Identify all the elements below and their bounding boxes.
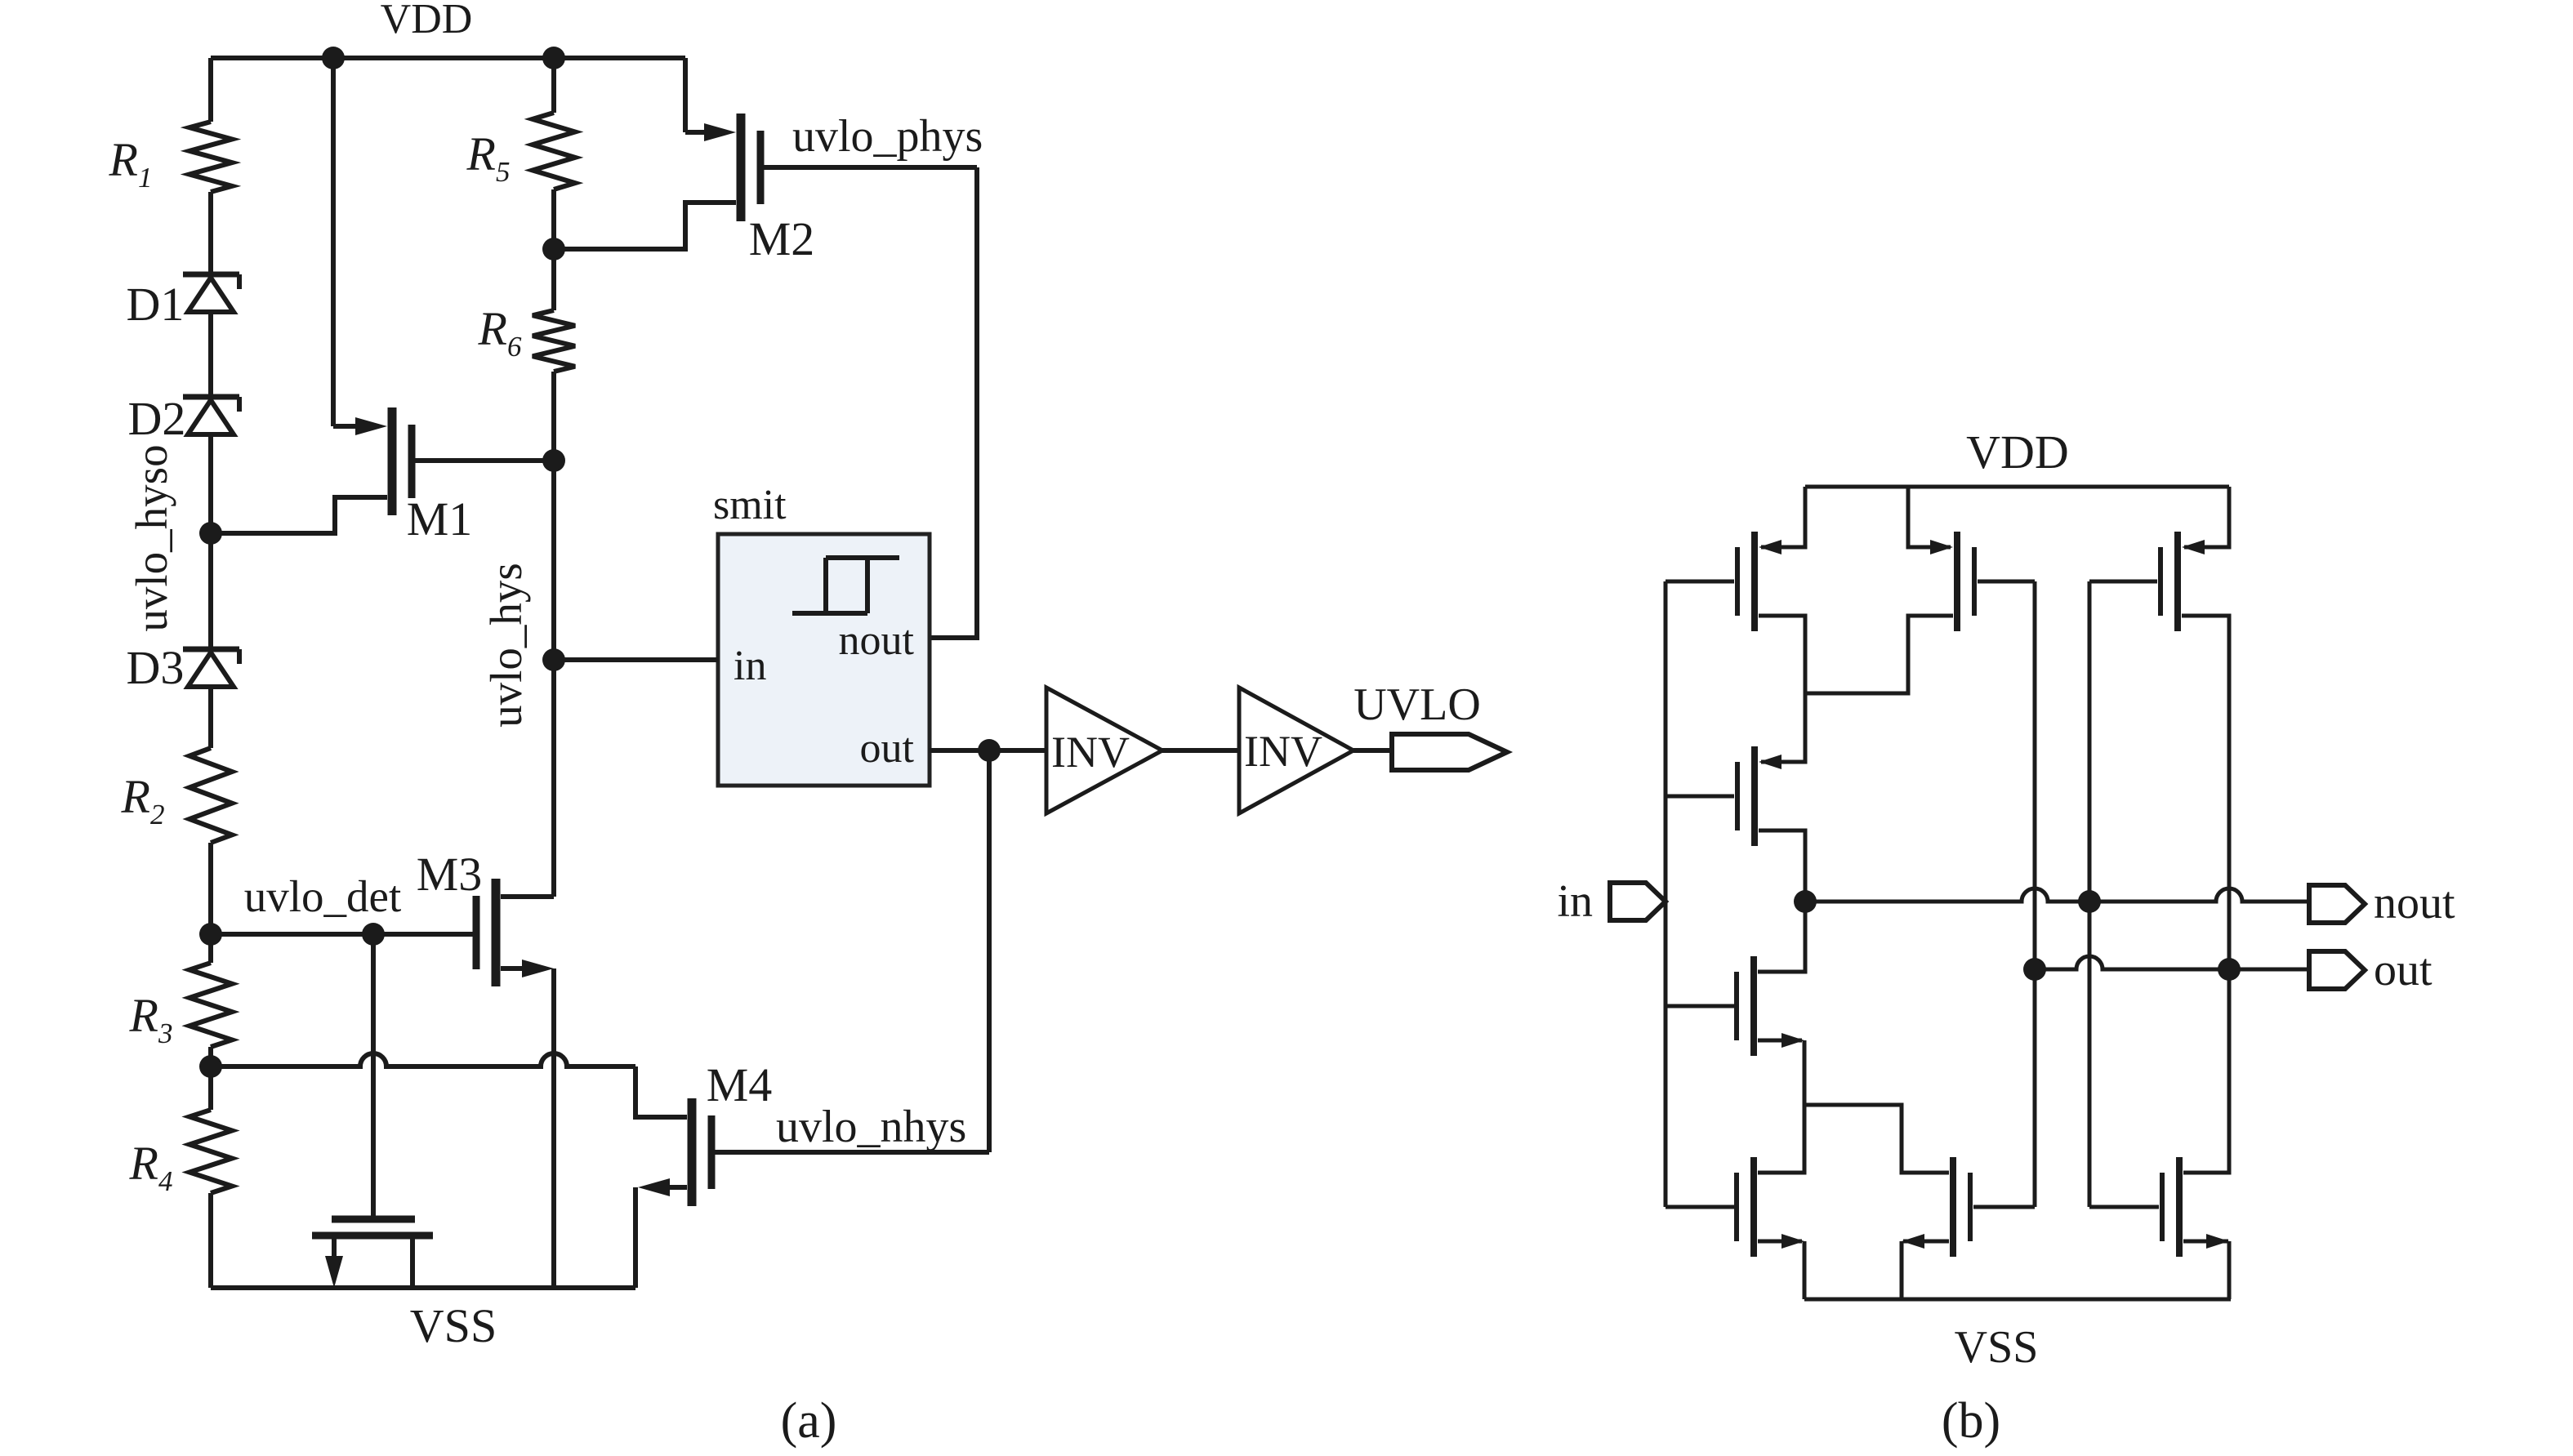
svg-text:M4: M4 xyxy=(707,1058,773,1111)
svg-text:out: out xyxy=(860,725,915,772)
svg-text:uvlo_phys: uvlo_phys xyxy=(792,111,983,162)
svg-text:(b): (b) xyxy=(1942,1393,2000,1449)
svg-text:VSS: VSS xyxy=(410,1299,497,1352)
svg-text:M2: M2 xyxy=(749,212,815,265)
svg-text:uvlo_det: uvlo_det xyxy=(244,871,401,921)
svg-text:VSS: VSS xyxy=(1955,1322,2039,1373)
svg-text:INV: INV xyxy=(1051,728,1130,777)
svg-text:UVLO: UVLO xyxy=(1353,679,1481,730)
svg-text:in: in xyxy=(734,643,766,689)
svg-text:out: out xyxy=(2374,945,2433,995)
svg-text:in: in xyxy=(1557,876,1593,927)
svg-text:M1: M1 xyxy=(407,492,473,545)
svg-text:nout: nout xyxy=(839,617,915,664)
svg-text:VDD: VDD xyxy=(1966,425,2069,479)
svg-text:D3: D3 xyxy=(127,641,185,694)
svg-text:smit: smit xyxy=(713,482,787,528)
svg-text:M3: M3 xyxy=(417,848,483,901)
svg-text:D2: D2 xyxy=(128,392,186,445)
svg-text:D1: D1 xyxy=(127,278,185,331)
svg-text:nout: nout xyxy=(2374,878,2455,928)
svg-text:INV: INV xyxy=(1244,727,1322,776)
svg-text:(a): (a) xyxy=(781,1393,837,1449)
svg-text:VDD: VDD xyxy=(381,0,473,42)
svg-text:uvlo_nhys: uvlo_nhys xyxy=(776,1102,966,1152)
svg-text:uvlo_hyso: uvlo_hyso xyxy=(127,444,176,631)
svg-text:uvlo_hys: uvlo_hys xyxy=(481,563,531,728)
